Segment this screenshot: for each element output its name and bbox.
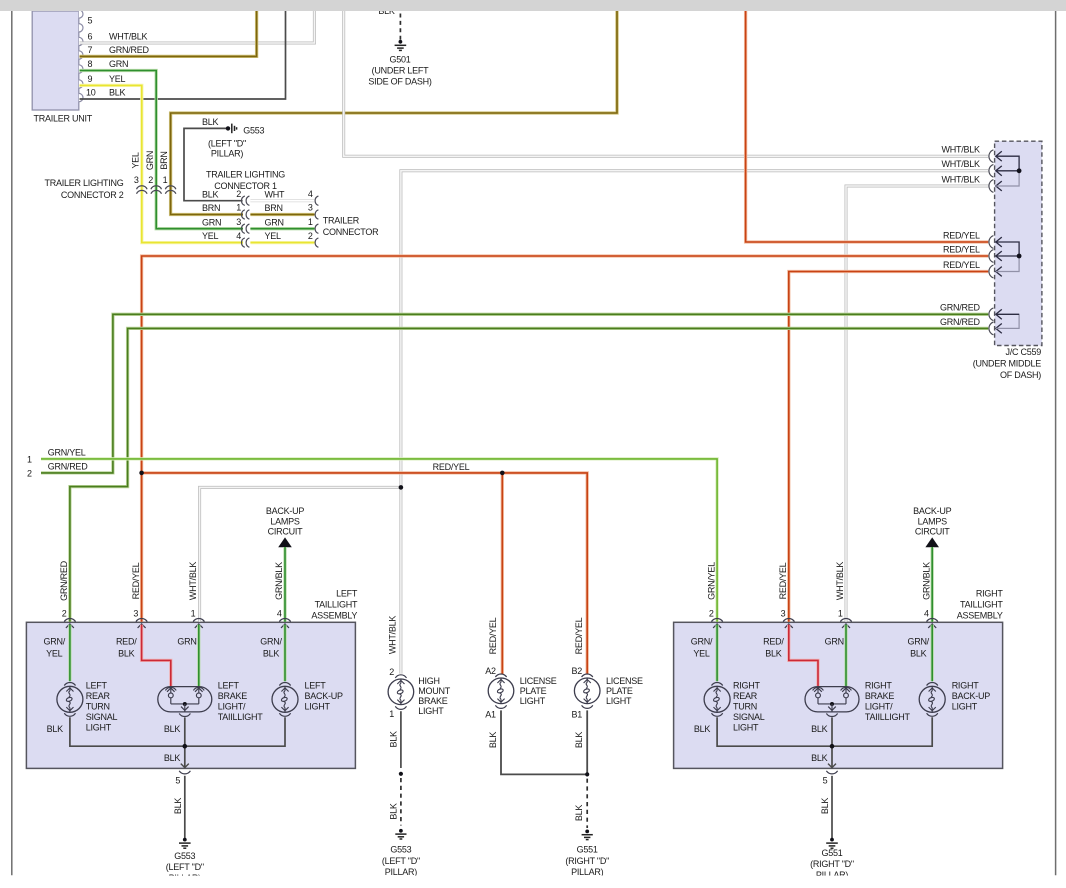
svg-text:2: 2 <box>389 667 394 677</box>
svg-text:SIDE OF DASH): SIDE OF DASH) <box>368 77 432 87</box>
svg-text:YEL: YEL <box>265 231 282 241</box>
lamp RIGHT REAR TURN SIGNAL LIGHT <box>704 681 765 733</box>
wire BLK from license plate light B1 to splice <box>586 710 588 774</box>
wire BLK dashed to ground G553 (high mount) <box>388 778 401 826</box>
svg-text:LIGHT: LIGHT <box>520 696 546 706</box>
svg-text:G551: G551 <box>821 848 842 858</box>
wire BLK from HIGH MOUNT BRAKE LIGHT pin 1 <box>388 711 401 768</box>
svg-text:6: 6 <box>88 32 93 42</box>
svg-text:BRAKE: BRAKE <box>865 691 895 701</box>
svg-text:BRN: BRN <box>265 203 283 213</box>
junction BLK license plate lights <box>585 772 589 776</box>
svg-text:BLK: BLK <box>47 724 64 734</box>
wire WHT to TRAILER CONNECTOR pin 4 <box>250 199 314 202</box>
wire GRN/YEL inside RIGHT taillight pin 2 to turn signal bulb <box>691 625 717 682</box>
svg-text:(LEFT "D": (LEFT "D" <box>208 138 246 148</box>
svg-text:GRN/BLK: GRN/BLK <box>274 562 284 600</box>
svg-text:GRN: GRN <box>177 636 196 646</box>
svg-text:LIGHT/: LIGHT/ <box>218 702 246 712</box>
svg-text:GRN/RED: GRN/RED <box>109 45 150 55</box>
wire GRN/RED from J/C C559 GRN/RED pin 1 to node 2 <box>27 314 988 478</box>
svg-text:LICENSE: LICENSE <box>606 676 643 686</box>
LEFT TAILLIGHT pin 5 (BLK) <box>175 771 190 786</box>
svg-text:GRN/RED: GRN/RED <box>940 303 981 313</box>
wire RED/YEL from top to J/C C559 RED/YEL pin 1 <box>746 11 989 242</box>
svg-text:TAILLIGHT: TAILLIGHT <box>315 600 358 610</box>
svg-text:WHT/BLK: WHT/BLK <box>942 145 981 155</box>
svg-text:4: 4 <box>277 609 282 619</box>
svg-text:G553: G553 <box>174 851 195 861</box>
svg-text:WHT/BLK: WHT/BLK <box>835 562 845 601</box>
svg-text:BLK: BLK <box>388 803 398 820</box>
svg-text:CIRCUIT: CIRCUIT <box>268 527 303 537</box>
svg-text:BLK: BLK <box>164 724 181 734</box>
svg-text:(RIGHT "D": (RIGHT "D" <box>810 859 854 869</box>
svg-text:BACK-UP: BACK-UP <box>266 506 305 516</box>
connector TRAILER CONNECTOR (pins 4,3,1,2) <box>265 189 380 247</box>
LEFT TAILLIGHT pin 4 (GRN/BLK) <box>274 562 290 628</box>
svg-text:TURN: TURN <box>733 702 757 712</box>
svg-text:8: 8 <box>88 59 93 69</box>
svg-text:1: 1 <box>27 454 32 464</box>
svg-text:LEFT: LEFT <box>218 681 240 691</box>
svg-text:LIGHT: LIGHT <box>86 722 112 732</box>
svg-text:TAIILLIGHT: TAIILLIGHT <box>865 712 911 722</box>
RIGHT TAILLIGHT pin 4 (GRN/BLK) <box>921 562 937 628</box>
wire GRN/RED from J/C C559 GRN/RED pin 2 to LEFT TAILLIGHT pin 2 <box>70 328 988 621</box>
svg-text:RED/YEL: RED/YEL <box>943 260 980 270</box>
svg-text:YEL: YEL <box>693 648 710 658</box>
wire BLK from LEFT taillight pin 5 to ground <box>173 776 185 838</box>
lamp HIGH MOUNT BRAKE LIGHT (pins 2,1) <box>387 616 450 719</box>
svg-text:LICENSE: LICENSE <box>520 676 557 686</box>
svg-text:9: 9 <box>88 74 93 84</box>
svg-text:1: 1 <box>163 175 168 185</box>
svg-text:BLK: BLK <box>574 732 584 749</box>
svg-text:2: 2 <box>308 231 313 241</box>
svg-text:4: 4 <box>308 189 313 199</box>
svg-text:TAIILLIGHT: TAIILLIGHT <box>218 712 264 722</box>
lamp LICENSE PLATE LIGHT (A2/A1) <box>485 617 557 748</box>
RIGHT TAILLIGHT pin 2 (GRN/YEL) <box>706 562 722 628</box>
svg-text:BLK: BLK <box>164 753 181 763</box>
wire BRN to TRAILER CONNECTOR pin 3 <box>250 213 314 216</box>
svg-text:BLK: BLK <box>820 798 830 815</box>
svg-text:PILLAR): PILLAR) <box>385 867 418 877</box>
svg-text:BACK-UP: BACK-UP <box>305 691 344 701</box>
node splice below high mount brake light <box>399 772 403 776</box>
svg-text:GRN: GRN <box>109 59 128 69</box>
svg-text:1: 1 <box>236 203 241 213</box>
svg-text:OF DASH): OF DASH) <box>1000 370 1041 380</box>
svg-text:BLK: BLK <box>765 648 782 658</box>
svg-text:10: 10 <box>86 88 96 98</box>
svg-text:RIGHT: RIGHT <box>865 681 893 691</box>
svg-text:GRN/BLK: GRN/BLK <box>921 562 931 600</box>
lamp LICENSE PLATE LIGHT (B2/B1) <box>571 617 643 748</box>
wire WHT/BLK from junction to LEFT TAILLIGHT pin 1 <box>200 487 401 621</box>
svg-text:2: 2 <box>236 189 241 199</box>
svg-text:CIRCUIT: CIRCUIT <box>915 527 950 537</box>
wire GRN/BLK inside RIGHT taillight pin 4 to back-up bulb <box>907 625 932 682</box>
svg-text:B1: B1 <box>571 709 582 719</box>
svg-text:5: 5 <box>88 16 93 26</box>
svg-text:WHT/BLK: WHT/BLK <box>942 159 981 169</box>
svg-text:BLK: BLK <box>173 798 183 815</box>
svg-text:CONNECTOR: CONNECTOR <box>323 227 379 237</box>
lamp LEFT BRAKE LIGHT/TAILLIGHT (dual filament) <box>158 681 263 722</box>
svg-text:PLATE: PLATE <box>520 686 547 696</box>
svg-text:LEFT: LEFT <box>86 681 108 691</box>
svg-text:RIGHT: RIGHT <box>952 681 980 691</box>
ground G551 (RIGHT "D" PILLAR) below license plate lights <box>565 830 609 878</box>
svg-text:1: 1 <box>308 217 313 227</box>
lamp LEFT REAR TURN SIGNAL LIGHT <box>57 681 118 733</box>
svg-text:BLK: BLK <box>118 648 135 658</box>
wire GRN to TRAILER CONNECTOR pin 1 <box>250 227 314 230</box>
svg-text:REAR: REAR <box>733 691 758 701</box>
svg-text:RED/YEL: RED/YEL <box>943 244 980 254</box>
svg-text:BRN: BRN <box>159 151 169 169</box>
svg-text:(LEFT "D": (LEFT "D" <box>382 856 420 866</box>
svg-text:RED/YEL: RED/YEL <box>943 230 980 240</box>
svg-text:1: 1 <box>389 709 394 719</box>
svg-text:LIGHT: LIGHT <box>606 696 632 706</box>
svg-text:BLK: BLK <box>811 724 828 734</box>
svg-text:5: 5 <box>175 775 180 785</box>
svg-text:SIGNAL: SIGNAL <box>86 712 118 722</box>
svg-text:RED/YEL: RED/YEL <box>778 562 788 599</box>
svg-text:HIGH: HIGH <box>418 676 440 686</box>
svg-text:GRN: GRN <box>145 151 155 170</box>
svg-text:LIGHT: LIGHT <box>733 722 759 732</box>
ground G501 (UNDER LEFT SIDE OF DASH) <box>368 40 432 87</box>
svg-text:GRN/RED: GRN/RED <box>48 462 89 472</box>
wire BLK from G553 splice to TRAILER LIGHTING CONNECTOR 1 pin 2 <box>184 128 243 200</box>
svg-text:A2: A2 <box>485 666 496 676</box>
svg-text:TRAILER LIGHTING: TRAILER LIGHTING <box>44 178 123 188</box>
svg-text:LEFT: LEFT <box>305 681 327 691</box>
RIGHT TAILLIGHT pin 5 (BLK) <box>823 771 838 786</box>
svg-text:PILLAR): PILLAR) <box>571 867 604 877</box>
LEFT TAILLIGHT pin 2 (GRN/RED) <box>59 560 75 628</box>
svg-text:BACK-UP: BACK-UP <box>952 691 991 701</box>
svg-text:ASSEMBLY: ASSEMBLY <box>311 611 357 621</box>
svg-text:3: 3 <box>134 175 139 185</box>
box RIGHT TAILLIGHT ASSEMBLY <box>674 588 1004 768</box>
svg-text:BLK: BLK <box>488 732 498 749</box>
svg-text:TRAILER UNIT: TRAILER UNIT <box>34 114 93 124</box>
wire BLK from RIGHT taillight pin 5 to ground <box>820 776 832 838</box>
svg-text:BLK: BLK <box>263 648 280 658</box>
wire GRN/BLK to RIGHT TAILLIGHT pin 4 (back-up lamps circuit) <box>913 506 952 622</box>
svg-text:RED/YEL: RED/YEL <box>433 462 470 472</box>
svg-text:B2: B2 <box>571 666 582 676</box>
svg-text:LEFT: LEFT <box>336 588 358 598</box>
svg-text:YEL: YEL <box>46 648 63 658</box>
svg-text:2: 2 <box>62 609 67 619</box>
wire BLK from license plate light A1 to splice <box>501 710 587 774</box>
svg-text:3: 3 <box>133 609 138 619</box>
svg-text:BLK: BLK <box>811 753 828 763</box>
svg-text:ASSEMBLY: ASSEMBLY <box>957 611 1003 621</box>
svg-text:TURN: TURN <box>86 702 110 712</box>
svg-text:3: 3 <box>236 217 241 227</box>
wire GRN inside LEFT taillight pin 1 to brake bulb <box>177 625 198 687</box>
svg-text:(UNDER LEFT: (UNDER LEFT <box>372 65 430 75</box>
junction BLK inside RIGHT taillight <box>830 744 835 749</box>
svg-text:RED/: RED/ <box>763 636 784 646</box>
svg-text:YEL: YEL <box>202 231 219 241</box>
J/C C559 WHT/BLK pin group (arrows into junction bus) <box>942 145 1022 193</box>
wire WHT/BLK from top to J/C C559 WHT/BLK pin 1 <box>344 11 989 156</box>
svg-text:GRN/: GRN/ <box>44 636 66 646</box>
svg-text:BLK: BLK <box>202 117 219 127</box>
svg-text:GRN: GRN <box>202 217 221 227</box>
wire YEL from TRAILER UNIT pin 9 to TRAILER LIGHTING CONNECTOR 1 pin 4 <box>80 85 244 242</box>
svg-text:WHT/BLK: WHT/BLK <box>109 32 148 42</box>
svg-text:GRN/: GRN/ <box>691 636 713 646</box>
svg-text:LIGHT: LIGHT <box>952 702 978 712</box>
junction WHT/BLK above high mount brake light <box>399 485 404 490</box>
lamp RIGHT BRAKE LIGHT/TAILLIGHT (dual filament) <box>805 681 910 722</box>
svg-text:3: 3 <box>781 609 786 619</box>
svg-text:SIGNAL: SIGNAL <box>733 712 765 722</box>
svg-text:BRN: BRN <box>202 203 220 213</box>
svg-text:LAMPS: LAMPS <box>918 516 948 526</box>
svg-text:RED/YEL: RED/YEL <box>488 617 498 654</box>
svg-text:BLK: BLK <box>388 731 398 748</box>
wire RED/BLK inside LEFT taillight pin 3 to brake bulb <box>116 625 171 687</box>
svg-text:GRN: GRN <box>825 636 844 646</box>
wire WHT/BLK from J/C C559 WHT/BLK pin 3 to RIGHT TAILLIGHT pin 1 <box>846 186 988 622</box>
svg-text:(RIGHT "D": (RIGHT "D" <box>565 856 609 866</box>
svg-text:LAMPS: LAMPS <box>270 516 300 526</box>
svg-text:GRN/YEL: GRN/YEL <box>48 448 86 458</box>
svg-text:RED/YEL: RED/YEL <box>131 562 141 599</box>
wire BLK from TRAILER UNIT pin 10 up to top <box>80 11 286 99</box>
svg-text:4: 4 <box>236 231 241 241</box>
junction connector J/C C559 (UNDER MIDDLE OF DASH) <box>973 141 1042 380</box>
svg-text:1: 1 <box>191 609 196 619</box>
box LEFT TAILLIGHT ASSEMBLY <box>26 588 358 768</box>
wire RED/YEL from J/C C559 RED/YEL pin 3 to RIGHT TAILLIGHT pin 3 <box>789 272 988 622</box>
svg-text:2: 2 <box>27 469 32 479</box>
wire RED/BLK inside RIGHT taillight pin 3 to brake bulb <box>763 625 818 687</box>
svg-text:WHT: WHT <box>265 189 285 199</box>
svg-text:WHT/BLK: WHT/BLK <box>942 174 981 184</box>
svg-text:2: 2 <box>148 175 153 185</box>
svg-text:BLK: BLK <box>202 189 219 199</box>
svg-text:BLK: BLK <box>694 724 711 734</box>
connector TRAILER LIGHTING CONNECTOR 2 (pins 3,2,1) <box>44 151 175 200</box>
LEFT TAILLIGHT pin 3 (RED/YEL) <box>131 562 147 628</box>
wire GRN from TRAILER UNIT pin 8 to TRAILER LIGHTING CONNECTOR 1 pin 3 <box>80 71 244 229</box>
svg-text:PLATE: PLATE <box>606 686 633 696</box>
svg-text:J/C C559: J/C C559 <box>1005 347 1041 357</box>
svg-text:MOUNT: MOUNT <box>418 686 450 696</box>
wire GRN inside RIGHT taillight pin 1 to brake bulb <box>825 625 846 687</box>
wire GRN/BLK inside LEFT taillight pin 4 to back-up bulb <box>260 625 285 682</box>
wire BLK dashed to ground G551 <box>574 779 587 828</box>
wire BLK ground bus inside RIGHT taillight <box>694 717 932 767</box>
wire RED/YEL from J/C C559 RED/YEL pin 2 to LEFT TAILLIGHT pin 3 <box>142 256 989 622</box>
svg-text:LIGHT: LIGHT <box>305 702 331 712</box>
svg-text:A1: A1 <box>485 709 496 719</box>
svg-text:GRN/RED: GRN/RED <box>59 560 69 601</box>
svg-text:YEL: YEL <box>130 152 140 169</box>
svg-text:G551: G551 <box>577 845 598 855</box>
svg-text:GRN: GRN <box>265 217 284 227</box>
ground G553 (LEFT "D" PILLAR) below high mount brake light <box>382 829 420 877</box>
svg-text:PILLAR): PILLAR) <box>211 149 244 159</box>
svg-text:LIGHT/: LIGHT/ <box>865 702 893 712</box>
wire GRN/YEL from node 1 to RIGHT TAILLIGHT pin 2 <box>27 448 717 622</box>
junction BLK inside LEFT taillight <box>183 744 188 749</box>
svg-text:WHT/BLK: WHT/BLK <box>387 616 397 655</box>
svg-text:G553: G553 <box>243 126 264 136</box>
J/C C559 GRN/RED pin group (arrows into junction bus) <box>940 303 1019 335</box>
svg-text:7: 7 <box>88 45 93 55</box>
svg-text:GRN/YEL: GRN/YEL <box>706 562 716 600</box>
svg-text:GRN/RED: GRN/RED <box>940 317 981 327</box>
svg-text:BLK: BLK <box>910 648 927 658</box>
svg-text:4: 4 <box>924 609 929 619</box>
svg-text:BRAKE: BRAKE <box>218 691 248 701</box>
svg-text:GRN/: GRN/ <box>907 636 929 646</box>
svg-text:G553: G553 <box>390 845 411 855</box>
svg-text:BLK: BLK <box>574 805 584 822</box>
wire WHT/BLK from TRAILER UNIT pin 6 up to top <box>80 11 315 43</box>
lamp LEFT BACK-UP LIGHT <box>272 681 343 717</box>
svg-text:TAILLIGHT: TAILLIGHT <box>960 600 1003 610</box>
LEFT TAILLIGHT pin 1 (WHT/BLK) <box>188 562 204 628</box>
junction RED/YEL above license plate light A2 <box>500 471 505 476</box>
svg-text:GRN/: GRN/ <box>260 636 282 646</box>
svg-text:REAR: REAR <box>86 691 111 701</box>
wire GRN/RED from TRAILER UNIT pin 7 up to top <box>80 11 257 56</box>
lamp RIGHT BACK-UP LIGHT <box>919 681 990 717</box>
svg-text:5: 5 <box>823 775 828 785</box>
wire GRN/YEL inside LEFT taillight pin 2 to turn signal bulb <box>44 625 70 682</box>
wire BLK ground bus inside LEFT taillight <box>47 717 285 767</box>
svg-text:(UNDER MIDDLE: (UNDER MIDDLE <box>973 359 1042 369</box>
svg-text:RIGHT: RIGHT <box>733 681 761 691</box>
svg-text:BRAKE: BRAKE <box>418 696 448 706</box>
connector TRAILER LIGHTING CONNECTOR 1 (rows: pins 2,1,3,4) <box>202 169 285 247</box>
svg-text:BACK-UP: BACK-UP <box>913 506 952 516</box>
svg-text:TRAILER LIGHTING: TRAILER LIGHTING <box>206 169 285 179</box>
svg-text:(LEFT "D": (LEFT "D" <box>166 862 204 872</box>
J/C C559 RED/YEL pin group (arrows into junction bus) <box>943 230 1021 278</box>
wire GRN/BLK to LEFT TAILLIGHT pin 4 (back-up lamps circuit) <box>266 506 305 622</box>
svg-text:LIGHT: LIGHT <box>418 706 444 716</box>
svg-text:RIGHT: RIGHT <box>976 588 1004 598</box>
svg-text:G501: G501 <box>389 54 410 64</box>
wire RED/YEL branch to LICENSE PLATE LIGHTS A2 and B2 <box>142 462 588 674</box>
wire WHT/BLK from J/C C559 WHT/BLK pin 2 to HIGH MOUNT BRAKE LIGHT pin 2 <box>401 171 988 674</box>
svg-text:TRAILER: TRAILER <box>323 215 360 225</box>
RIGHT TAILLIGHT pin 1 (WHT/BLK) <box>835 562 851 628</box>
svg-text:WHT/BLK: WHT/BLK <box>188 562 198 601</box>
wire BLK dashed to ground G501 <box>378 6 400 40</box>
svg-text:YEL: YEL <box>109 74 126 84</box>
svg-text:1: 1 <box>838 609 843 619</box>
svg-text:CONNECTOR 2: CONNECTOR 2 <box>61 190 124 200</box>
ground G553 splice (LEFT "D" PILLAR) near trailer lighting connector <box>202 117 265 158</box>
wire BRN from top via TRAILER LIGHTING CONNECTOR 2 pin 1 to CONNECTOR 1 pin 1 <box>171 11 617 215</box>
svg-text:RED/: RED/ <box>116 636 137 646</box>
svg-text:BLK: BLK <box>109 88 126 98</box>
ground G551 (RIGHT "D" PILLAR) below right taillight <box>810 838 854 881</box>
junction RED/YEL at left riser <box>139 471 144 476</box>
connector TRAILER UNIT (pins 5-10) <box>32 10 149 124</box>
wire YEL to TRAILER CONNECTOR pin 2 <box>250 241 314 244</box>
svg-text:3: 3 <box>308 203 313 213</box>
svg-text:RED/YEL: RED/YEL <box>574 617 584 654</box>
ground G553 (LEFT "D" PILLAR) below left taillight <box>166 838 204 884</box>
RIGHT TAILLIGHT pin 3 (RED/YEL) <box>778 562 794 628</box>
svg-text:2: 2 <box>709 609 714 619</box>
